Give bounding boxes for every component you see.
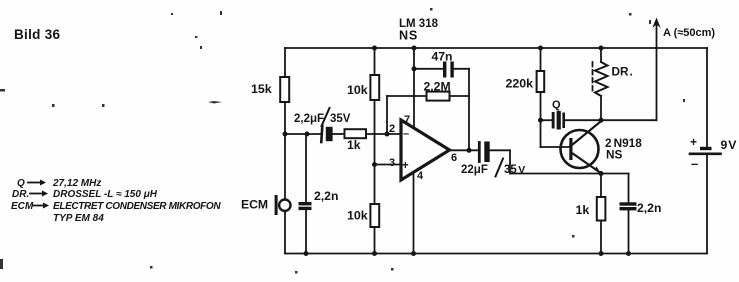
capacitor C5 2,2n (620, 202, 637, 210)
svg-text:Bild 36: Bild 36 (14, 27, 61, 42)
antenna arrowhead (652, 18, 660, 29)
crystal Q 27,12MHz (552, 111, 565, 130)
svg-text:22μF: 22μF (461, 164, 488, 176)
svg-text:NS: NS (606, 148, 623, 162)
resistor R6 220k (537, 71, 545, 92)
svg-text:DR.: DR. (12, 189, 29, 200)
wire divider upper lead (374, 48, 376, 75)
legend line ECM = electret mikrofon (11, 201, 221, 212)
wire DR lower lead (600, 96, 602, 120)
node junction top rail / 220k (538, 46, 543, 51)
svg-text:9V: 9V (721, 138, 738, 152)
wire output to corner (490, 149, 510, 151)
svg-text:1k: 1k (576, 203, 590, 217)
node junction top rail / divider (372, 46, 377, 51)
svg-text:TYP EM 84: TYP EM 84 (53, 213, 104, 224)
node junction pin4 / ground rail (411, 251, 416, 256)
node junction divider / pin3 (372, 162, 377, 167)
wire 2,2M row right (450, 95, 470, 97)
svg-text:–: – (691, 156, 698, 171)
svg-text:4: 4 (417, 170, 424, 182)
node junction top rail / pin7 (412, 46, 417, 51)
wire base horizontal (541, 146, 571, 148)
node junction left rail / input row (283, 132, 288, 137)
wire modulation to emitter (510, 173, 601, 175)
value label 22uF/35V (461, 159, 525, 177)
wire 2,2n upper lead (628, 174, 630, 203)
wire left rail top segment (284, 48, 286, 77)
wire 2,2n to ground (628, 210, 630, 253)
wire 2,2n cap branch lower (305, 210, 307, 253)
svg-text:47n: 47n (432, 50, 453, 64)
wire left rail mid segment (284, 102, 286, 199)
svg-text:A (≈50cm): A (≈50cm) (663, 27, 715, 39)
node junction emitter (599, 171, 604, 176)
resistor R2 1k (345, 129, 367, 138)
svg-text:35V: 35V (330, 113, 351, 125)
node junction pin7 line / 47n (412, 66, 417, 71)
capacitor C1 2,2uF/35V electrolytic (321, 126, 332, 142)
node junction top rail / DR (599, 46, 604, 51)
node junction divider / ground rail (372, 251, 377, 256)
wire 2,2n cap branch upper (305, 134, 307, 202)
wire 220k lower lead (540, 92, 542, 120)
wire right rail lower (battery -) (706, 155, 708, 254)
resistor R7 1k (597, 197, 606, 221)
svg-text:2,2M: 2,2M (424, 80, 451, 94)
svg-text:15k: 15k (251, 82, 272, 96)
wire 220k upper lead (540, 48, 542, 71)
wire 47n row left (414, 68, 443, 70)
svg-text:–: – (403, 128, 409, 140)
inductor DR (Drossel) (593, 62, 608, 96)
wire crystal row left (541, 119, 552, 121)
legend line DR = Drossel (12, 189, 158, 200)
svg-text:+: + (690, 135, 697, 149)
svg-text:ECM: ECM (241, 198, 268, 212)
svg-text:Q: Q (552, 99, 561, 111)
wire input node row (285, 133, 401, 135)
svg-text:2,2n: 2,2n (314, 189, 338, 203)
svg-text:220k: 220k (506, 77, 534, 91)
resistor R4 10k lower (370, 204, 379, 227)
wire divider middle (crosses input row) (374, 100, 376, 165)
svg-text:NS: NS (399, 29, 418, 43)
antenna A wire (656, 21, 658, 120)
node junction base network (538, 118, 543, 123)
legend line Q = 27,12 MHz (17, 178, 101, 189)
wire crystal row right to antenna (565, 119, 657, 121)
svg-text:27,12 MHz: 27,12 MHz (52, 178, 101, 189)
svg-text:10k: 10k (347, 209, 368, 223)
wire divider to ground (374, 227, 376, 254)
svg-text:1k: 1k (347, 138, 361, 152)
resistor R3 10k upper (370, 75, 379, 100)
svg-text:7: 7 (404, 114, 410, 126)
wire left rail bottom segment (284, 212, 286, 254)
wire top +9V rail (285, 47, 707, 49)
value label 2,2uF/35V (294, 108, 351, 126)
svg-text:2,2n: 2,2n (637, 201, 661, 215)
svg-text:+: + (402, 160, 409, 172)
node junction 2,2n / ground rail (626, 251, 631, 256)
wire 2,2M row left (387, 95, 427, 97)
wire output row (448, 149, 479, 151)
wire emitter drop (600, 174, 602, 198)
wire pin 3 (375, 164, 402, 166)
svg-text:2,2μF: 2,2μF (294, 113, 324, 125)
svg-text:10k: 10k (347, 83, 368, 97)
wire corner down (509, 150, 511, 173)
capacitor C3 47n (443, 62, 454, 78)
wire pin 7 supply (413, 48, 415, 127)
battery BT1 9V (690, 147, 721, 154)
wire feedback left vertical (386, 96, 388, 134)
wire feedback right vertical (468, 69, 470, 151)
wire right rail upper (battery +) (706, 48, 708, 148)
svg-text:ELECTRET CONDENSER MIKROFON: ELECTRET CONDENSER MIKROFON (53, 201, 221, 212)
wire divider lower lead (374, 165, 376, 205)
wire DR upper lead (600, 48, 602, 62)
svg-text:2: 2 (389, 123, 395, 135)
svg-text:DR.: DR. (612, 65, 633, 79)
wire base drop (540, 120, 542, 147)
svg-text:3: 3 (389, 157, 395, 169)
svg-text:DROSSEL -L ≈ 150 μH: DROSSEL -L ≈ 150 μH (53, 189, 158, 200)
svg-text:6: 6 (451, 152, 457, 164)
capacitor C4 22uF/35V electrolytic (479, 142, 489, 163)
wire emitter to 2,2n (601, 173, 629, 175)
microphone ECM (275, 195, 291, 215)
capacitor C2 2,2n (299, 202, 312, 210)
node junction 2,2n tap (305, 132, 310, 137)
transistor Q1 2N918 (561, 122, 601, 173)
node junction 1k / ground rail (599, 251, 604, 256)
wire bottom ground rail (285, 253, 707, 255)
svg-text:ECM: ECM (11, 201, 34, 212)
resistor R1 15k (280, 77, 289, 102)
node junction feedback tap pin2 (385, 132, 390, 137)
svg-text:Q: Q (17, 178, 25, 189)
node junction feedback / output (467, 148, 472, 153)
wire 1k to ground (600, 221, 602, 254)
wire 47n row right (454, 68, 469, 70)
node junction collector / DR (599, 118, 604, 123)
resistor R5 2,2M (427, 92, 450, 101)
wire pin 4 to ground (413, 174, 415, 254)
op-amp U1 triangle (401, 120, 450, 180)
node junction 2,2n / ground rail (304, 251, 309, 256)
